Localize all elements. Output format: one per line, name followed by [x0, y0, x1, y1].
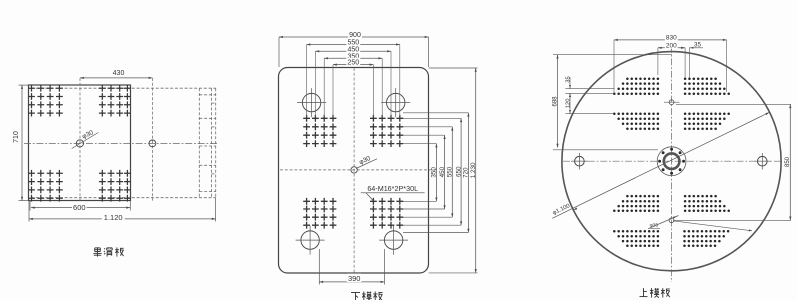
vertical centerline	[353, 68, 355, 273]
top dimension 35	[681, 42, 704, 79]
svg-text:650: 650	[455, 166, 462, 177]
lower-right inner dot cluster	[684, 195, 730, 212]
left dimension 35	[565, 76, 614, 98]
svg-text:550: 550	[447, 166, 454, 177]
svg-text:64-M16*2P*30L: 64-M16*2P*30L	[367, 184, 418, 193]
center flange bolt circle dots	[658, 148, 685, 175]
upper-right outer dot cluster	[684, 77, 730, 95]
left view: slide plate group	[13, 70, 218, 222]
radius leader to rim	[673, 221, 752, 232]
right dimension 350	[431, 144, 438, 202]
bottom dimension 390	[319, 249, 384, 285]
horizontal centerline	[280, 169, 437, 171]
plate outline (solid)	[29, 85, 131, 201]
svg-text:φ35: φ35	[650, 223, 659, 229]
top small hole	[664, 100, 680, 105]
right dimension 550	[447, 127, 454, 217]
left dimension 688	[552, 55, 672, 150]
left dimension 120	[565, 93, 613, 113]
label 64-M16*2P*30L	[361, 184, 425, 201]
title: right view name (CJK strokes)	[640, 288, 670, 298]
svg-text:720: 720	[463, 167, 470, 178]
svg-text:1.120: 1.120	[104, 213, 123, 222]
svg-text:688: 688	[552, 96, 558, 107]
bottom-left guide post hole	[296, 226, 325, 255]
svg-text:830: 830	[666, 35, 677, 42]
top-right tapped hole cluster M16 (crosses)	[370, 115, 403, 147]
top dimension 830	[614, 33, 727, 93]
center flange outer circle	[657, 147, 686, 176]
plate circle outline	[562, 52, 781, 271]
top dimension 900	[279, 30, 429, 67]
vertical centerline through hole	[79, 78, 81, 201]
right side connector lines	[403, 68, 478, 273]
center hole phi30 with leader	[351, 155, 377, 173]
right dimension 720	[463, 113, 470, 233]
svg-text:35: 35	[565, 76, 571, 82]
dimension 600	[30, 201, 130, 213]
plate outline rounded	[279, 68, 429, 274]
middle view: lower die plate group	[279, 30, 478, 284]
svg-text:710: 710	[13, 131, 20, 143]
hidden profile (dashed)	[31, 88, 216, 198]
small hole on hidden section	[149, 140, 156, 147]
dimension 430	[80, 70, 152, 79]
top dimension 450	[315, 44, 391, 117]
lower-right outer dot cluster	[683, 230, 729, 247]
upper-right inner dot cluster	[684, 113, 730, 130]
right side hole	[754, 153, 771, 170]
upper-left outer dot cluster	[613, 77, 659, 95]
lower-left inner dot cluster	[613, 195, 659, 212]
upper-left inner dot cluster	[613, 113, 659, 130]
right dimension 450	[439, 135, 446, 209]
top dimension 350	[324, 51, 382, 117]
bottom-right tapped hole cluster M16 (crosses)	[370, 198, 403, 229]
right dimension 1.230	[470, 68, 477, 273]
top dimension 200	[658, 41, 685, 78]
svg-text:200: 200	[666, 43, 677, 50]
svg-text:120: 120	[565, 99, 571, 109]
svg-text:250: 250	[347, 60, 359, 67]
svg-text:850: 850	[785, 156, 791, 167]
svg-text:600: 600	[73, 203, 86, 212]
right dimension 650	[455, 118, 462, 225]
bottom-right mounting hole cluster (crosses)	[99, 170, 131, 202]
right dimension 850	[674, 104, 791, 220]
top-left tapped hole cluster M16 (crosses)	[303, 115, 336, 147]
bottom small hole phi35 with leader	[648, 216, 679, 229]
top-right mounting hole cluster (crosses)	[99, 85, 131, 117]
top dimension 550	[307, 38, 400, 117]
left side hole	[571, 153, 588, 170]
svg-text:390: 390	[348, 274, 361, 283]
dimension 710	[13, 85, 28, 201]
svg-text:430: 430	[113, 70, 125, 77]
svg-text:35: 35	[694, 42, 701, 49]
lower-left outer dot cluster	[613, 230, 659, 247]
top-left mounting hole cluster (crosses)	[28, 85, 63, 117]
center hole phi30	[72, 129, 99, 148]
dimension 1.120	[29, 198, 216, 222]
top-right guide post hole	[381, 88, 410, 117]
svg-text:1.230: 1.230	[470, 162, 477, 178]
svg-text:350: 350	[431, 167, 438, 178]
top-left guide post hole	[297, 88, 326, 117]
diameter line phi1.100	[552, 112, 769, 218]
center flange bore ring	[664, 153, 680, 169]
bottom-left tapped hole cluster M16 (crosses)	[303, 198, 336, 229]
title: middle view name (CJK strokes)	[351, 292, 383, 300]
vertical centerline	[671, 46, 673, 282]
bottom-left mounting hole cluster (crosses)	[28, 170, 63, 202]
svg-text:450: 450	[439, 166, 446, 177]
bottom-right guide post hole	[379, 226, 408, 255]
right view: upper die plate group	[552, 33, 791, 282]
title: left view name (CJK strokes)	[93, 247, 123, 256]
horizontal centerline	[563, 160, 781, 162]
horizontal centerline	[24, 142, 218, 144]
top dimension 250	[333, 58, 373, 117]
vertical dashed line at 430 right extension	[151, 78, 153, 201]
